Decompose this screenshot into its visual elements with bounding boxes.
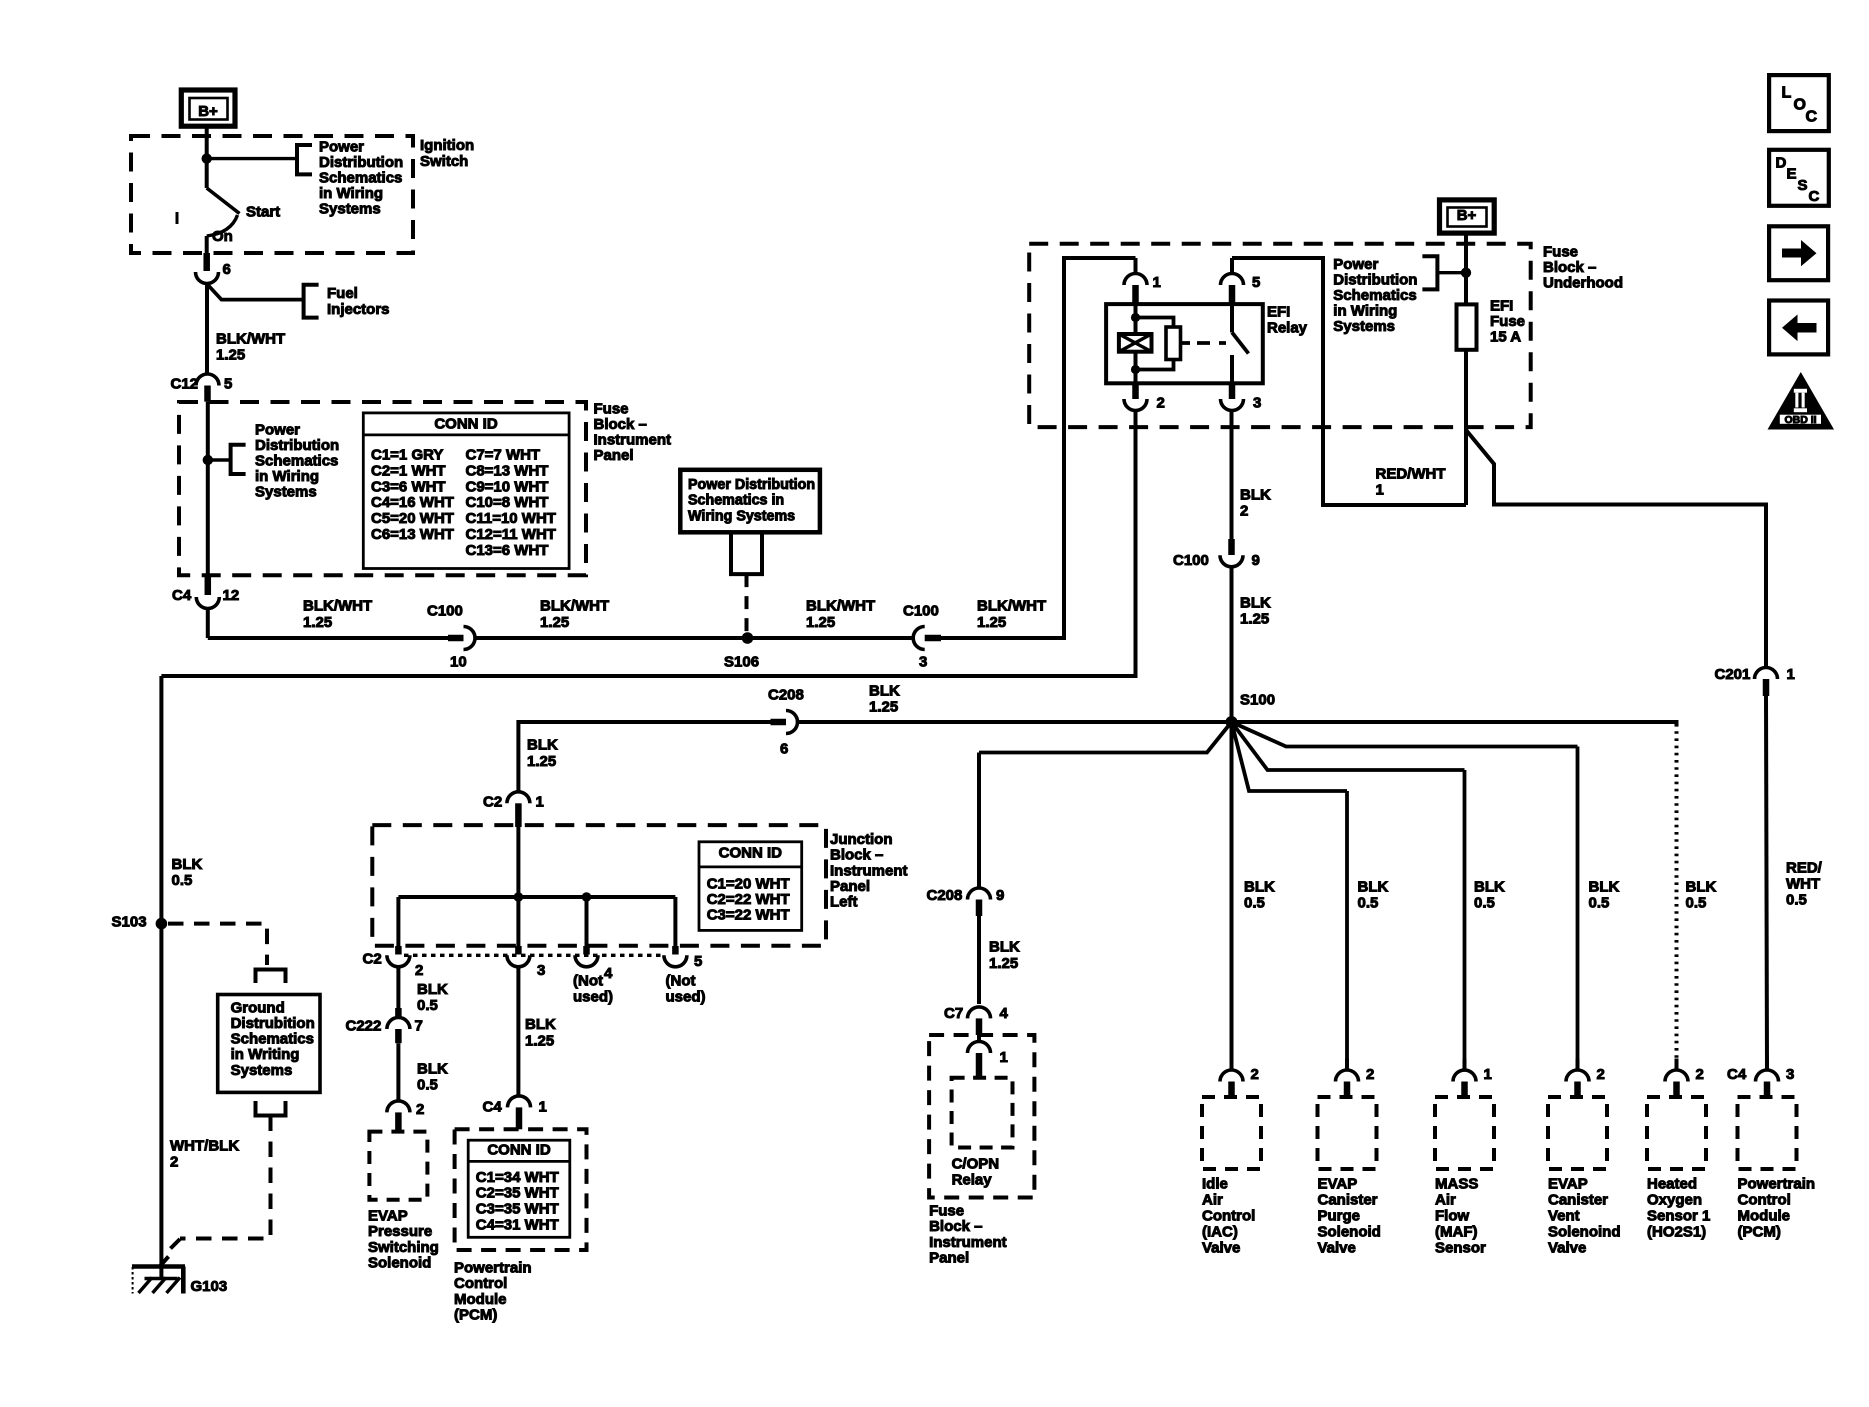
svg-text:Left: Left xyxy=(830,894,858,911)
svg-text:C4: C4 xyxy=(1727,1066,1747,1083)
svg-text:Schematics in: Schematics in xyxy=(688,493,784,509)
svg-text:1.25: 1.25 xyxy=(869,698,898,715)
svg-text:BLK: BLK xyxy=(1240,594,1271,611)
accessory position tick xyxy=(176,212,179,224)
svg-text:Power: Power xyxy=(1333,256,1378,273)
svg-text:(IAC): (IAC) xyxy=(1202,1223,1238,1240)
svg-text:1: 1 xyxy=(1484,1066,1492,1083)
bracket: Power Distribution Schematics (fuse block) xyxy=(231,445,246,474)
svg-text:BLK/WHT: BLK/WHT xyxy=(216,330,285,347)
svg-text:Schematics: Schematics xyxy=(319,169,402,186)
dashed lead to ground wire xyxy=(180,1116,271,1239)
svg-text:10: 10 xyxy=(450,653,467,670)
dashed branch to ground distribution box xyxy=(168,924,267,956)
RED/WHT 1 branch xyxy=(1466,430,1766,668)
svg-text:Sensor 1: Sensor 1 xyxy=(1647,1207,1710,1224)
EVAP pressure switching solenoid dashed box xyxy=(369,1132,427,1200)
svg-text:CONN ID: CONN ID xyxy=(487,1141,551,1158)
svg-text:Canister: Canister xyxy=(1548,1191,1608,1208)
svg-text:Pressure: Pressure xyxy=(368,1223,432,1240)
svg-text:(PCM): (PCM) xyxy=(454,1307,497,1324)
wire through fuse block xyxy=(206,402,210,576)
svg-text:Ignition: Ignition xyxy=(420,137,474,154)
svg-text:Power Distribution: Power Distribution xyxy=(688,477,815,493)
svg-text:L: L xyxy=(1782,85,1792,102)
connector C4 pin 1 xyxy=(508,1096,531,1108)
svg-text:EFI: EFI xyxy=(1267,303,1290,320)
splice S103 xyxy=(156,918,168,930)
svg-text:C208: C208 xyxy=(768,686,804,703)
svg-text:BLK: BLK xyxy=(527,736,558,753)
component: EVAP Canister Vent Solenoid Valve xyxy=(1576,1059,1580,1071)
svg-text:9: 9 xyxy=(996,887,1004,904)
relay pin 3 wire BLK 2 xyxy=(1230,411,1234,540)
svg-text:BLK: BLK xyxy=(417,1060,448,1077)
power distribution schematics box (above S106) xyxy=(680,470,820,533)
bracket: Fuel Injectors xyxy=(304,285,319,318)
svg-text:S103: S103 xyxy=(112,913,147,930)
B+ wire to node xyxy=(1464,233,1468,304)
svg-text:C: C xyxy=(1806,109,1818,126)
svg-text:Idle: Idle xyxy=(1202,1175,1228,1192)
relay coil circuit xyxy=(1134,304,1138,334)
component: Powertrain Control Module (PCM) right xyxy=(1765,1059,1769,1071)
svg-text:used): used) xyxy=(666,988,706,1005)
svg-text:in Wiring: in Wiring xyxy=(255,468,319,485)
svg-text:C100: C100 xyxy=(427,602,463,619)
svg-text:2: 2 xyxy=(1251,1066,1259,1083)
svg-text:(Not: (Not xyxy=(573,972,603,989)
drop to HO2S1 (dotted wire) xyxy=(1675,724,1679,1070)
component: Idle Air Control (IAC) Valve xyxy=(1230,1059,1234,1071)
component: Heated Oxygen Sensor 1 (HO2S1) xyxy=(1675,1059,1679,1071)
svg-text:B+: B+ xyxy=(1457,207,1477,224)
svg-text:Systems: Systems xyxy=(319,200,381,217)
svg-text:BLK: BLK xyxy=(1686,878,1717,895)
drop to MAF xyxy=(1463,770,1467,1070)
svg-text:C1=34 WHT: C1=34 WHT xyxy=(476,1169,559,1186)
svg-text:Wiring Systems: Wiring Systems xyxy=(688,509,795,525)
svg-text:Instrument: Instrument xyxy=(594,432,672,449)
svg-text:D: D xyxy=(1776,154,1787,171)
bracket above ground box xyxy=(256,970,286,984)
svg-text:in Wiring: in Wiring xyxy=(1333,302,1397,319)
drop to EVAP vent xyxy=(1576,747,1580,1071)
junction block connector row (dotted) xyxy=(404,954,664,957)
svg-text:Power: Power xyxy=(255,421,300,438)
wire to fuel injectors branch xyxy=(207,284,304,300)
svg-text:1.25: 1.25 xyxy=(527,753,556,770)
svg-text:RED/: RED/ xyxy=(1786,859,1823,876)
svg-text:9: 9 xyxy=(1252,552,1260,569)
svg-text:B+: B+ xyxy=(198,103,218,120)
CONN ID table (junction block) xyxy=(699,842,802,931)
svg-text:C3=35 WHT: C3=35 WHT xyxy=(476,1201,559,1218)
connector C208 pin 9 xyxy=(968,888,991,900)
svg-text:1: 1 xyxy=(539,1098,547,1115)
S100 fan diagonals xyxy=(1232,722,1578,747)
svg-text:Power: Power xyxy=(319,138,364,155)
svg-text:5: 5 xyxy=(1252,274,1260,291)
svg-text:Underhood: Underhood xyxy=(1543,275,1623,292)
connector pin 6 (ignition output) xyxy=(196,272,219,284)
svg-text:C208: C208 xyxy=(927,887,963,904)
svg-text:4: 4 xyxy=(604,965,613,982)
junction pin 5 (not used) xyxy=(672,946,679,955)
svg-text:C3=22 WHT: C3=22 WHT xyxy=(707,907,790,924)
svg-text:0.5: 0.5 xyxy=(172,872,193,889)
battery terminal B+ (left) xyxy=(181,90,235,126)
svg-text:2: 2 xyxy=(1157,394,1165,411)
svg-text:used): used) xyxy=(573,988,613,1005)
svg-text:Block –: Block – xyxy=(1543,259,1596,276)
svg-text:Schematics: Schematics xyxy=(231,1031,314,1048)
svg-text:1.25: 1.25 xyxy=(989,955,1018,972)
svg-text:BLK/WHT: BLK/WHT xyxy=(977,597,1046,614)
svg-text:Fuse: Fuse xyxy=(929,1202,964,1219)
svg-text:Module: Module xyxy=(1738,1207,1791,1224)
svg-text:Distrubition: Distrubition xyxy=(231,1015,315,1032)
junction pin C2-2 xyxy=(395,946,402,955)
svg-text:Panel: Panel xyxy=(594,447,634,464)
svg-text:BLK: BLK xyxy=(172,856,203,873)
ground symbol G103 xyxy=(132,1264,185,1269)
svg-text:S106: S106 xyxy=(724,653,759,670)
relay switch xyxy=(1230,304,1234,332)
svg-text:BLK: BLK xyxy=(1474,878,1505,895)
svg-text:G103: G103 xyxy=(191,1278,228,1295)
svg-text:C2=1 WHT: C2=1 WHT xyxy=(371,462,446,479)
svg-text:C4: C4 xyxy=(172,587,192,604)
svg-text:C7=7 WHT: C7=7 WHT xyxy=(466,447,541,464)
svg-text:4: 4 xyxy=(1000,1005,1009,1022)
ground distribution schematics box xyxy=(218,995,320,1093)
bus wire BLK/WHT 1.25 (mid segment) xyxy=(475,636,913,640)
svg-text:1.25: 1.25 xyxy=(525,1032,554,1049)
junction pin 4 (not used) xyxy=(583,946,590,955)
svg-text:Schematics: Schematics xyxy=(1333,287,1416,304)
svg-text:C12: C12 xyxy=(171,375,199,392)
connector pin 1 (inside fuse block) xyxy=(977,1035,981,1042)
svg-text:Canister: Canister xyxy=(1318,1191,1378,1208)
svg-text:C100: C100 xyxy=(1173,552,1209,569)
svg-text:Start: Start xyxy=(246,203,280,220)
svg-text:Air: Air xyxy=(1202,1191,1223,1208)
svg-text:Heated: Heated xyxy=(1647,1175,1697,1192)
svg-text:Solenoid: Solenoid xyxy=(1318,1223,1381,1240)
relay pin 2 xyxy=(1132,383,1139,399)
svg-text:1: 1 xyxy=(1376,481,1384,498)
svg-text:O: O xyxy=(1794,97,1806,114)
svg-text:2: 2 xyxy=(1696,1066,1704,1083)
splice S106 xyxy=(742,632,754,644)
svg-text:C201: C201 xyxy=(1715,666,1751,683)
svg-text:Control: Control xyxy=(1202,1207,1255,1224)
svg-text:Fuse: Fuse xyxy=(1543,243,1578,260)
svg-text:C3=6 WHT: C3=6 WHT xyxy=(371,478,446,495)
svg-text:(PCM): (PCM) xyxy=(1738,1223,1781,1240)
svg-text:1.25: 1.25 xyxy=(540,614,569,631)
ground bus wire (S103 branch) xyxy=(161,411,1135,677)
fuse block instrument panel dashed box xyxy=(179,402,586,575)
svg-text:Instrument: Instrument xyxy=(929,1234,1007,1251)
svg-text:(MAF): (MAF) xyxy=(1435,1223,1477,1240)
relay pin 1 xyxy=(1134,258,1138,274)
svg-text:C8=13 WHT: C8=13 WHT xyxy=(466,462,549,479)
svg-text:Distribution: Distribution xyxy=(1333,271,1417,288)
svg-text:Vent: Vent xyxy=(1548,1207,1580,1224)
svg-text:0.5: 0.5 xyxy=(1244,894,1265,911)
svg-text:0.5: 0.5 xyxy=(1589,894,1610,911)
wire S100 right to HO2S1 drop xyxy=(1232,722,1677,724)
svg-text:BLK/WHT: BLK/WHT xyxy=(806,597,875,614)
svg-text:12: 12 xyxy=(223,587,240,604)
drop to EVAP purge xyxy=(1345,791,1349,1070)
svg-text:EFI: EFI xyxy=(1490,297,1513,314)
svg-text:1.25: 1.25 xyxy=(1240,610,1269,627)
junction block internal bus xyxy=(398,895,675,899)
svg-text:Instrument: Instrument xyxy=(830,862,908,879)
ignition switch contacts xyxy=(205,159,209,188)
component: EVAP Canister Purge Solenoid Valve xyxy=(1345,1059,1349,1071)
node (junction dot) in ignition switch xyxy=(202,153,212,163)
svg-text:0.5: 0.5 xyxy=(1786,891,1807,908)
svg-text:5: 5 xyxy=(224,375,232,392)
svg-text:Valve: Valve xyxy=(1202,1239,1240,1256)
svg-text:C12=11 WHT: C12=11 WHT xyxy=(466,526,556,543)
svg-text:CONN ID: CONN ID xyxy=(719,844,783,861)
svg-text:0.5: 0.5 xyxy=(417,1076,438,1093)
component: MASS Air Flow (MAF) Sensor xyxy=(1463,1059,1467,1071)
svg-text:C13=6 WHT: C13=6 WHT xyxy=(466,542,549,559)
ground wire BLK 0.5 down left side xyxy=(159,676,163,1277)
svg-text:BLK: BLK xyxy=(1244,878,1275,895)
fuse block underhood dashed box xyxy=(1029,244,1531,427)
svg-text:C1=20 WHT: C1=20 WHT xyxy=(707,876,790,893)
bus wire BLK/WHT 1.25 (right segment) to relay pin1 feed xyxy=(941,258,1136,638)
relay pin 5 xyxy=(1230,258,1234,274)
svg-text:Systems: Systems xyxy=(255,483,317,500)
connector C4 pin 12 xyxy=(205,575,212,595)
svg-text:BLK/WHT: BLK/WHT xyxy=(540,597,609,614)
svg-text:C5=20 WHT: C5=20 WHT xyxy=(371,510,454,527)
svg-text:C2=22 WHT: C2=22 WHT xyxy=(707,891,790,908)
relay actuation dashed line xyxy=(1181,341,1191,345)
svg-text:5: 5 xyxy=(694,953,702,970)
svg-text:BLK: BLK xyxy=(417,981,448,998)
svg-text:Block –: Block – xyxy=(830,847,883,864)
svg-text:Oxygen: Oxygen xyxy=(1647,1191,1702,1208)
svg-text:BLK: BLK xyxy=(989,938,1020,955)
svg-text:Purge: Purge xyxy=(1318,1207,1361,1224)
connector C12 pin 5 xyxy=(196,374,219,386)
svg-text:Relay: Relay xyxy=(1267,319,1308,336)
svg-text:Control: Control xyxy=(1738,1191,1791,1208)
junction pin 3 xyxy=(515,946,522,955)
svg-text:WHT/BLK: WHT/BLK xyxy=(170,1137,239,1154)
svg-text:Fuel: Fuel xyxy=(327,285,358,302)
OBD II triangle icon xyxy=(1768,372,1835,430)
svg-text:1.25: 1.25 xyxy=(977,614,1006,631)
svg-text:Solenoid: Solenoid xyxy=(368,1255,431,1272)
connector C201 pin 1 xyxy=(1755,668,1778,680)
svg-text:BLK: BLK xyxy=(1358,878,1389,895)
svg-text:1: 1 xyxy=(1000,1049,1008,1066)
svg-text:in Writing: in Writing xyxy=(231,1046,300,1063)
svg-text:EVAP: EVAP xyxy=(1548,1175,1588,1192)
svg-text:3: 3 xyxy=(1253,394,1261,411)
svg-text:MASS: MASS xyxy=(1435,1175,1478,1192)
svg-text:Valve: Valve xyxy=(1318,1239,1356,1256)
svg-text:in Wiring: in Wiring xyxy=(319,185,383,202)
left arrow icon box xyxy=(1769,301,1828,355)
svg-text:BLK/WHT: BLK/WHT xyxy=(303,597,372,614)
svg-text:EVAP: EVAP xyxy=(1318,1175,1358,1192)
svg-text:C4=31 WHT: C4=31 WHT xyxy=(476,1216,559,1233)
relay coil (box with X) xyxy=(1119,334,1152,352)
wire BLK/WHT 1.25 down to C12 xyxy=(205,284,209,375)
connector C100 pin 9 xyxy=(1228,539,1235,555)
svg-text:0.5: 0.5 xyxy=(1358,894,1379,911)
svg-text:C1=1 GRY: C1=1 GRY xyxy=(371,447,443,464)
svg-text:CONN ID: CONN ID xyxy=(434,415,498,432)
battery terminal B+ (right) xyxy=(1440,200,1495,233)
svg-text:2: 2 xyxy=(1240,502,1248,519)
svg-text:1.25: 1.25 xyxy=(303,614,332,631)
svg-text:2: 2 xyxy=(415,962,423,979)
svg-text:Panel: Panel xyxy=(830,878,870,895)
PCM dashed box xyxy=(455,1129,587,1250)
splice S100 xyxy=(1226,716,1238,728)
wire junction pin3 down BLK 1.25 xyxy=(516,966,520,1096)
DESC icon box xyxy=(1769,150,1829,206)
svg-text:2: 2 xyxy=(1597,1066,1605,1083)
svg-text:C11=10 WHT: C11=10 WHT xyxy=(466,510,556,527)
svg-text:1: 1 xyxy=(1153,274,1161,291)
dashed lead to S106 xyxy=(745,574,749,634)
wire node to power-distribution bracket xyxy=(207,157,297,160)
svg-text:Fuse: Fuse xyxy=(594,400,629,417)
connector C100 pin 3 xyxy=(913,627,925,650)
bracket below box xyxy=(731,532,762,574)
svg-text:3: 3 xyxy=(1786,1066,1794,1083)
ignition switch dashed box xyxy=(131,136,413,253)
svg-text:BLK: BLK xyxy=(1240,486,1271,503)
bus wire BLK/WHT 1.25 (left segment) xyxy=(208,636,448,640)
svg-text:Sensor: Sensor xyxy=(1435,1239,1486,1256)
svg-text:Fuse: Fuse xyxy=(1490,313,1525,330)
svg-text:C222: C222 xyxy=(346,1017,382,1034)
svg-text:Block –: Block – xyxy=(594,416,647,433)
svg-text:C2: C2 xyxy=(483,793,502,810)
svg-text:2: 2 xyxy=(1366,1066,1374,1083)
svg-text:S: S xyxy=(1798,177,1808,194)
relay pin1 feed wire inside box xyxy=(1062,258,1066,638)
svg-text:1.25: 1.25 xyxy=(216,346,245,363)
svg-text:Block –: Block – xyxy=(929,1218,982,1235)
svg-text:Ground: Ground xyxy=(231,999,285,1016)
svg-text:Junction: Junction xyxy=(830,831,893,848)
wire C2-1 through junction block xyxy=(516,823,520,947)
svg-text:Distribution: Distribution xyxy=(255,437,339,454)
svg-text:(HO2S1): (HO2S1) xyxy=(1647,1223,1706,1240)
svg-text:On: On xyxy=(212,228,233,245)
drop wire to C208-9 / C7-4 (left) xyxy=(977,753,981,889)
LOC icon box xyxy=(1769,75,1829,131)
node dot in fuse block xyxy=(203,455,213,465)
switch blade to Start xyxy=(207,188,240,214)
svg-text:Panel: Panel xyxy=(929,1250,969,1267)
svg-text:Powertrain: Powertrain xyxy=(1738,1175,1816,1192)
relay pin 3 xyxy=(1229,383,1236,399)
svg-text:2: 2 xyxy=(416,1101,424,1118)
wire B+ to ignition node xyxy=(205,126,209,158)
connector C222 pin 7 xyxy=(387,1018,410,1029)
svg-text:Flow: Flow xyxy=(1435,1207,1469,1224)
pin5 wire to fuse bottom xyxy=(1232,258,1466,505)
svg-text:(Not: (Not xyxy=(666,972,696,989)
connector C208 pin 6 xyxy=(786,711,798,734)
switch throw arc xyxy=(207,215,238,236)
svg-text:7: 7 xyxy=(415,1017,423,1034)
svg-text:2: 2 xyxy=(170,1153,178,1170)
wire S100 down to IAC xyxy=(1230,722,1234,1070)
junction block dashed box xyxy=(372,825,826,946)
svg-text:3: 3 xyxy=(537,962,545,979)
svg-text:S100: S100 xyxy=(1240,691,1275,708)
right arrow icon box xyxy=(1769,226,1828,280)
EFI relay solid box xyxy=(1106,304,1263,383)
svg-text:Solenoind: Solenoind xyxy=(1548,1223,1621,1240)
svg-text:C9=10 WHT: C9=10 WHT xyxy=(466,478,549,495)
CONN ID table (PCM) xyxy=(468,1140,570,1237)
CONN ID table (fuse block IP) xyxy=(363,413,569,569)
svg-text:C6=13 WHT: C6=13 WHT xyxy=(371,526,454,543)
bracket: Power Distribution Schematics (underhood) xyxy=(1422,256,1437,289)
svg-text:BLK: BLK xyxy=(1589,878,1620,895)
wire BLK 1.25 to S100 xyxy=(1230,566,1234,722)
svg-text:RED/WHT: RED/WHT xyxy=(1376,465,1446,482)
svg-text:1.25: 1.25 xyxy=(806,614,835,631)
svg-text:C4=16 WHT: C4=16 WHT xyxy=(371,494,454,511)
svg-text:Injectors: Injectors xyxy=(327,301,390,318)
svg-text:Air: Air xyxy=(1435,1191,1456,1208)
svg-text:Module: Module xyxy=(454,1291,507,1308)
svg-text:C2=35 WHT: C2=35 WHT xyxy=(476,1185,559,1202)
svg-text:15 A: 15 A xyxy=(1490,328,1521,345)
connector C2 pin 1 xyxy=(507,792,530,804)
svg-text:OBD II: OBD II xyxy=(1784,414,1816,426)
connector C7 pin 4 xyxy=(968,1007,991,1019)
svg-text:0.5: 0.5 xyxy=(1686,894,1707,911)
svg-text:0.5: 0.5 xyxy=(417,997,438,1014)
svg-text:BLK: BLK xyxy=(869,682,900,699)
relay resistor xyxy=(1166,327,1181,360)
svg-text:C10=8 WHT: C10=8 WHT xyxy=(466,494,549,511)
svg-text:C2: C2 xyxy=(363,950,382,967)
svg-text:EVAP: EVAP xyxy=(368,1207,408,1224)
connector C100 pin 10 xyxy=(448,635,464,642)
bracket: Power Distribution Schematics (ignition) xyxy=(297,145,312,174)
wire C4-12 down to bus xyxy=(206,609,210,639)
svg-text:Distribution: Distribution xyxy=(319,154,403,171)
connector pin 2 (EVAP solenoid) xyxy=(387,1101,410,1113)
svg-text:6: 6 xyxy=(223,261,231,278)
EFI fuse 15A xyxy=(1457,304,1477,349)
svg-text:Powertrain: Powertrain xyxy=(454,1259,532,1276)
svg-text:Control: Control xyxy=(454,1275,507,1292)
svg-text:0.5: 0.5 xyxy=(1474,894,1495,911)
